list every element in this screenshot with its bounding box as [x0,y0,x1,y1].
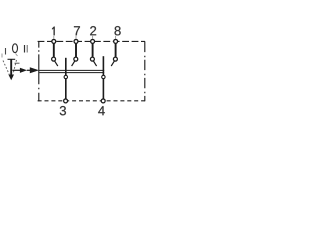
label position 0 [13,44,18,53]
terminal 7 label [74,26,80,35]
terminal 1 conductor [53,44,55,57]
terminal 3 conductor [65,79,67,99]
terminal 4 label [98,106,105,115]
terminal 4 conductor [102,79,104,99]
label position II [24,45,26,53]
lever shaft arrow down [10,59,12,75]
terminal 2 fixed contact [90,57,94,61]
actuator bar double line [39,69,104,71]
actuation arrow shaft [12,69,20,71]
terminal 3 circle [64,99,68,103]
actuation arrow head 2 [30,67,39,73]
terminal 8 circle [114,39,118,43]
terminal 7 circle [74,39,78,43]
terminal 8 conductor [115,44,117,57]
terminal 8 fixed contact [113,57,117,61]
terminal 2 circle [91,39,95,43]
actuation arrow head 1 [20,68,27,73]
terminal 8 label [115,26,121,35]
terminal 7 contact blade [72,61,75,66]
terminal 4 pivot contact [102,75,105,78]
terminal 3 mover upper [65,58,67,75]
actuation arrow shaft 2 [27,69,30,71]
lever dashed position right [16,54,18,57]
terminal 2 label [90,26,96,35]
enclosure dashed box top border [38,40,145,42]
enclosure dashed box right border [144,41,146,101]
terminal 4 mover upper [102,56,104,75]
terminal 4 circle [101,99,105,103]
label position I [5,48,7,55]
terminal 3 pivot contact [64,75,67,78]
small dash right of lever [15,62,20,64]
terminal 1 circle [52,39,56,43]
lever top cap [8,58,16,60]
terminal 2 conductor [92,44,94,57]
terminal 2 contact blade [93,61,96,66]
terminal 7 fixed contact [74,57,78,61]
enclosure dashed box left border [38,41,40,101]
terminal 8 contact blade [111,61,114,66]
terminal 1 label [52,27,55,36]
lever dashed position left [1,54,3,58]
terminal 1 fixed contact [52,57,56,61]
terminal 7 conductor [75,44,77,57]
terminal 1 contact blade [55,61,58,66]
terminal 3 label [60,106,66,115]
enclosure dashed box bottom border [38,100,145,102]
